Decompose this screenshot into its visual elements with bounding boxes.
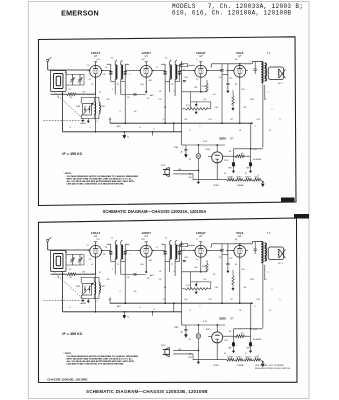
svg-text:SCHEMATIC DIAGRAM—CHASSIS 1200: SCHEMATIC DIAGRAM—CHASSIS 120033A, 12010… bbox=[103, 209, 207, 214]
svg-text:USE OF RED. DOT. IN WIRES: USE OF RED. DOT. IN WIRES bbox=[255, 365, 284, 367]
svg-text:610, 616, Ch. 120100A, 120100B: 610, 616, Ch. 120100A, 120100B bbox=[172, 10, 291, 17]
svg-text:EMERSON: EMERSON bbox=[61, 9, 99, 18]
svg-text:CHASSIS 120033B, 120100B: CHASSIS 120033B, 120100B bbox=[47, 377, 88, 381]
svg-text:INDICATES INTERLOCKED SWITCH: INDICATES INTERLOCKED SWITCH bbox=[255, 367, 291, 370]
svg-text:SCHEMATIC DIAGRAM—CHASSIS 1200: SCHEMATIC DIAGRAM—CHASSIS 120033B, 12010… bbox=[86, 389, 208, 394]
